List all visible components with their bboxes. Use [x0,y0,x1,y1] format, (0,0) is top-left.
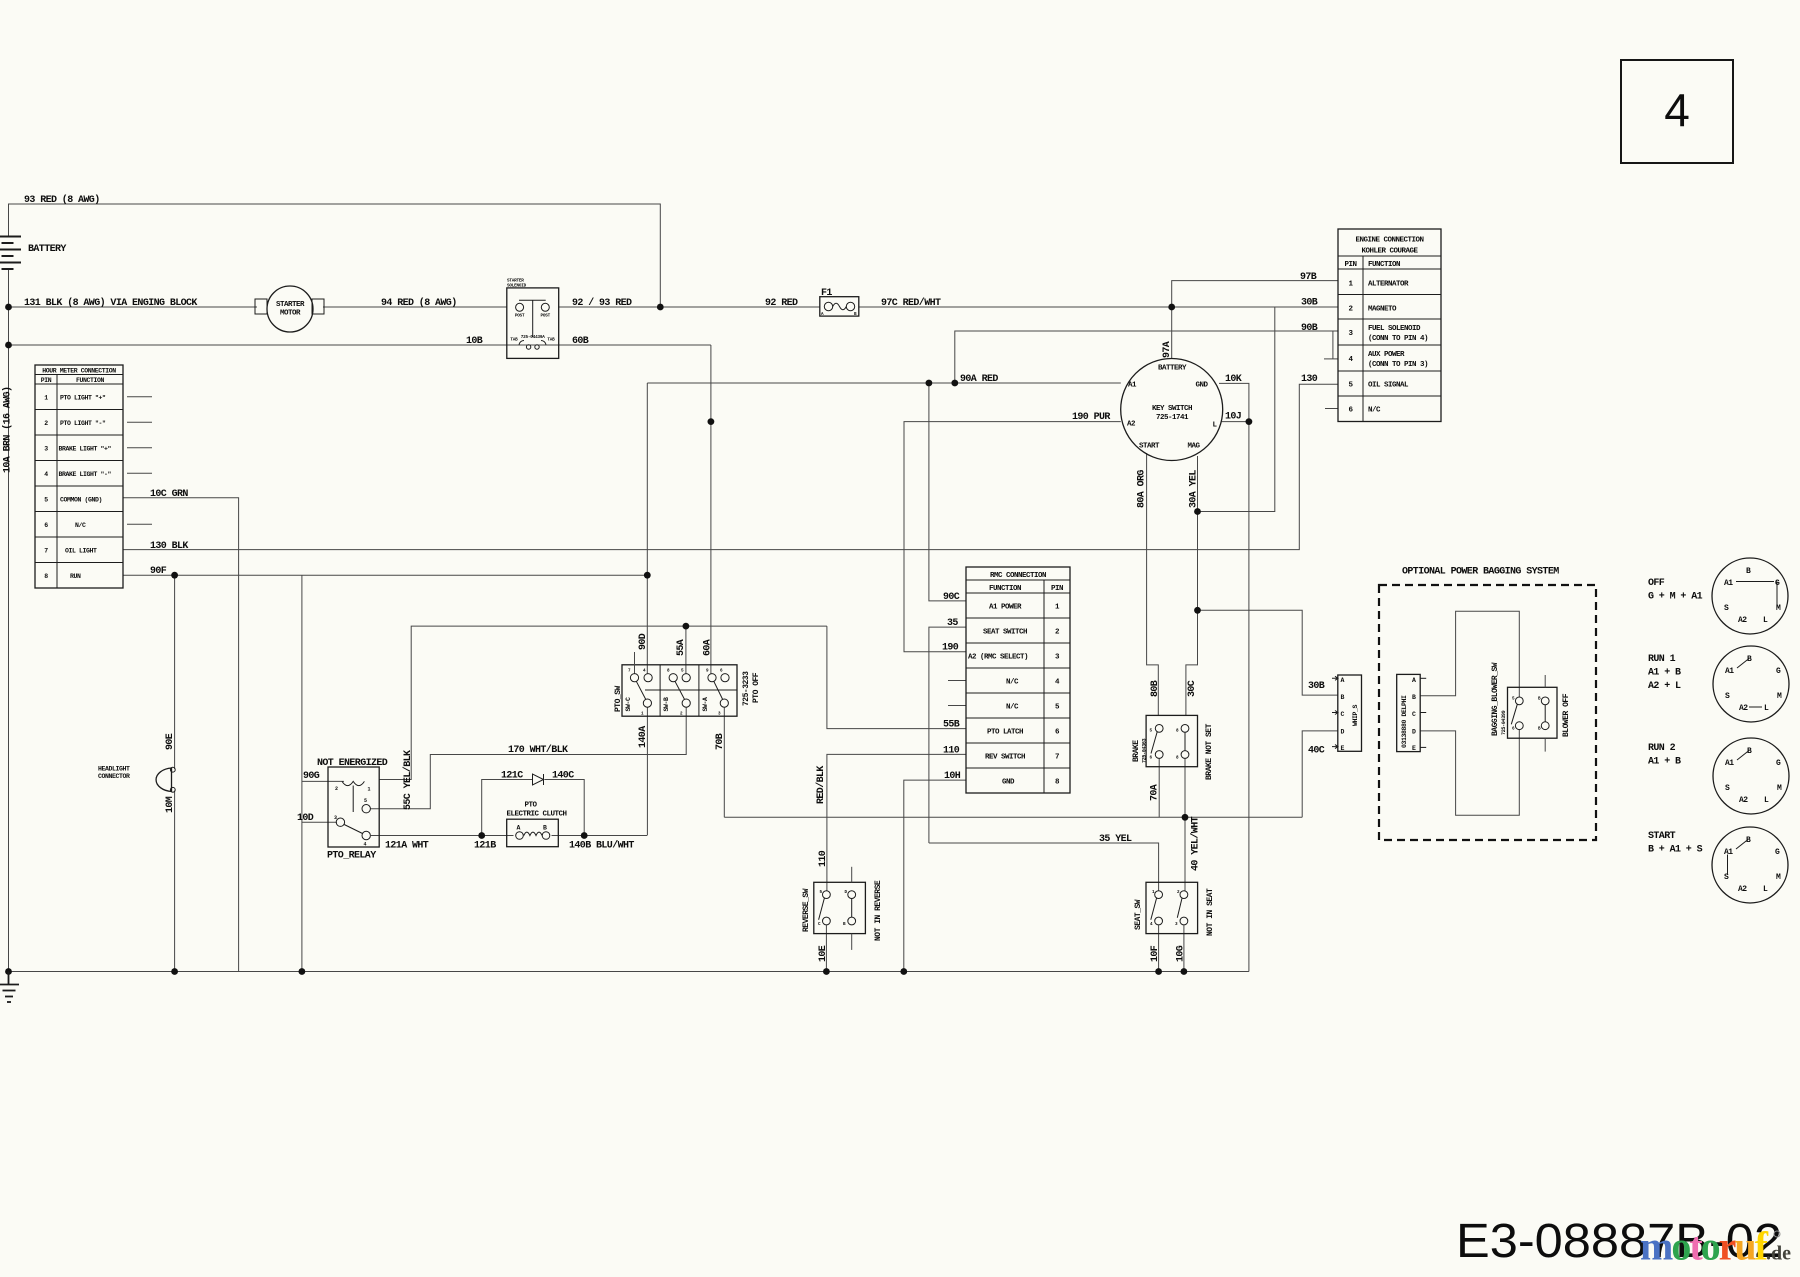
svg-text:30B: 30B [1301,298,1318,309]
svg-text:N/C: N/C [1368,407,1381,415]
svg-text:10C GRN: 10C GRN [150,489,188,500]
junction node 30A tap upper [1194,508,1201,515]
watermark motoruf logo [1640,1224,1791,1269]
svg-text:170 WHT/BLK: 170 WHT/BLK [508,744,568,756]
svg-text:L: L [1764,796,1769,805]
svg-text:OFF: OFF [1648,578,1665,589]
svg-text:4: 4 [1664,84,1690,136]
wire 90D down to PTO switch pin 4 [646,383,648,674]
svg-text:1: 1 [368,787,371,793]
wire 30A YEL key switch mag down [1186,456,1198,715]
svg-text:S: S [1724,873,1729,882]
svg-text:131 BLK (8 AWG) VIA ENGING BLO: 131 BLK (8 AWG) VIA ENGING BLOCK [24,297,197,309]
svg-text:POST: POST [541,314,551,319]
svg-text:5: 5 [364,798,367,804]
svg-text:4: 4 [364,842,367,848]
svg-text:S: S [1724,604,1729,613]
junction node 55A tap [683,623,690,630]
wire 55B into RMC pin 6 [827,626,966,729]
svg-text:RMC CONNECTION: RMC CONNECTION [990,572,1046,580]
svg-text:35: 35 [947,618,958,629]
svg-text:55B: 55B [943,720,960,731]
svg-text:A2: A2 [1739,704,1748,713]
table HOUR METER CONNECTION [35,365,123,588]
junction node battery 10B [5,342,12,349]
svg-text:140C: 140C [552,771,574,782]
svg-text:A1 POWER: A1 POWER [989,604,1022,612]
svg-text:725-04439A: 725-04439A [521,335,545,340]
wire 90G relay feed vertical [302,575,344,971]
svg-text:(CONN TO PIN 4): (CONN TO PIN 4) [1368,335,1428,343]
svg-text:6: 6 [44,522,48,529]
wire 10K key switch GND [1219,383,1249,971]
svg-text:ELECTRIC CLUTCH: ELECTRIC CLUTCH [506,811,566,819]
stub hour meter pin 2 [127,421,152,423]
svg-text:SEAT SWITCH: SEAT SWITCH [983,629,1027,637]
svg-text:N/C: N/C [1006,679,1019,687]
svg-text:A1 + B: A1 + B [1648,757,1681,768]
switch BRAKE 725-04363 [1132,715,1214,780]
svg-text:30B: 30B [1308,681,1325,692]
svg-text:10E: 10E [818,945,829,962]
junction node bus at 10H [900,968,907,975]
junction node 93 RED drop [657,304,664,311]
svg-text:E: E [1412,745,1416,752]
svg-text:FUNCTION: FUNCTION [1368,261,1400,269]
wire 40 YEL/WHT brake to seat switch pin 2 [1184,758,1186,891]
svg-text:MAG: MAG [1188,443,1201,451]
svg-text:93 RED (8 AWG): 93 RED (8 AWG) [24,194,100,206]
svg-text:SW-B: SW-B [663,697,670,712]
key position diagram OFF [1648,558,1788,634]
svg-text:S: S [1725,784,1730,793]
wire 140B BLU/WHT clutch B to 140A riser [552,835,648,837]
svg-text:7: 7 [44,548,48,555]
stub RMC pin 4 N/C [948,680,966,682]
wire 90E headlight feed [174,575,176,769]
svg-text:ENGINE CONNECTION: ENGINE CONNECTION [1355,237,1423,245]
svg-text:C: C [1412,711,1416,718]
svg-text:A1: A1 [1724,579,1733,588]
svg-text:A1: A1 [1725,667,1734,676]
svg-text:8: 8 [44,573,48,580]
svg-text:725-1741: 725-1741 [1156,414,1189,422]
svg-text:80A ORG: 80A ORG [1137,470,1148,508]
svg-text:N/C: N/C [75,522,86,529]
svg-text:110: 110 [943,746,960,757]
svg-text:190: 190 [942,643,959,654]
svg-text:60B: 60B [572,336,589,347]
fuse F1 [820,297,859,317]
svg-text:WHIP_S: WHIP_S [1352,704,1359,726]
svg-text:KOHLER COURAGE: KOHLER COURAGE [1361,248,1418,256]
svg-text:BRAKE NOT SET: BRAKE NOT SET [1205,723,1214,780]
wire 10F seat switch to ground bus [1158,925,1160,971]
svg-text:7: 7 [1055,754,1059,762]
svg-text:POST: POST [515,314,525,319]
svg-text:START: START [1648,831,1676,842]
svg-text:PIN: PIN [1344,261,1356,269]
svg-text:B: B [543,825,547,832]
svg-text:90B: 90B [1301,323,1318,334]
svg-text:BAGGING_BLOWER_SW: BAGGING_BLOWER_SW [1491,662,1500,736]
svg-text:STARTER: STARTER [276,301,305,309]
switch BAGGING_BLOWER_SW [1491,662,1571,751]
wire 35 YEL to seat switch pin 1 [929,843,1159,891]
svg-text:B: B [1412,694,1416,701]
junction node 30B tap lower [1194,607,1201,614]
svg-text:NOT ENERGIZED: NOT ENERGIZED [317,758,388,769]
table ENGINE CONNECTION KOHLER COURAGE [1338,229,1441,422]
wire 121A WHT relay pin 4 to clutch [371,835,514,837]
wire 10M headlight return [174,791,176,972]
svg-text:OIL SIGNAL: OIL SIGNAL [1368,382,1409,390]
svg-text:KEY SWITCH: KEY SWITCH [1152,405,1192,413]
svg-text:N/C: N/C [1006,704,1019,712]
svg-text:ALTERNATOR: ALTERNATOR [1368,281,1409,289]
svg-text:MAGNETO: MAGNETO [1368,306,1397,314]
svg-text:90E: 90E [165,733,176,750]
junction node 140B [581,832,588,839]
svg-text:HOUR METER CONNECTION: HOUR METER CONNECTION [42,368,116,375]
svg-text:725-3233: 725-3233 [742,671,751,706]
svg-text:PTO_RELAY: PTO_RELAY [327,851,376,862]
svg-text:F1: F1 [821,288,832,299]
svg-text:121C: 121C [501,771,523,782]
svg-text:PTO LIGHT "-": PTO LIGHT "-" [60,420,106,427]
switch PTO_SW 725-3233 [614,652,761,717]
svg-text:OIL LIGHT: OIL LIGHT [65,548,97,555]
svg-text:90D: 90D [638,633,649,650]
svg-text:A2 + L: A2 + L [1648,681,1681,692]
junction node bus at ground [5,968,12,975]
svg-text:90G: 90G [303,771,320,782]
ground GND1 [0,972,19,1003]
svg-text:BRAKE LIGHT "+": BRAKE LIGHT "+" [59,446,112,453]
svg-text:G: G [1776,667,1781,676]
svg-text:C: C [1341,711,1345,718]
svg-text:L: L [1764,704,1769,713]
stub hour meter pin 3 [127,447,152,449]
wire battery negative down left rail [8,269,10,972]
svg-text:BRAKE: BRAKE [1132,740,1141,762]
wire 10B 60B lower solenoid run [9,344,711,346]
junction node bus at 10G [1181,968,1188,975]
junction node 97 split [1168,304,1175,311]
svg-text:(CONN TO PIN 3): (CONN TO PIN 3) [1368,361,1428,369]
clutch PTO ELECTRIC CLUTCH [506,802,566,847]
wire 140A 140B clutch to PTO switch pin 1 [646,707,648,835]
svg-text:A1: A1 [1725,759,1734,768]
svg-text:SEAT_SW: SEAT_SW [1134,899,1143,930]
svg-text:03138880 DELPHI: 03138880 DELPHI [1401,695,1408,748]
svg-text:10M: 10M [165,796,176,813]
svg-text:90A RED: 90A RED [960,374,998,385]
wire 170 WHT/BLK relay pin 5 to PTO switch pin 2 [370,707,686,809]
wire 30B branch to whip connector pin B [1198,610,1338,695]
wire 140C diode branch right [545,780,585,836]
svg-text:START: START [1139,443,1160,451]
svg-text:94 RED (8 AWG): 94 RED (8 AWG) [381,297,457,309]
svg-text:G: G [1776,759,1781,768]
svg-text:TAB: TAB [510,338,518,343]
svg-text:GND: GND [1196,382,1209,390]
svg-text:30A YEL: 30A YEL [1189,470,1200,508]
stub RMC pin 5 N/C [948,705,966,707]
svg-text:AUX POWER: AUX POWER [1368,351,1405,359]
svg-text:190 PUR: 190 PUR [1072,412,1110,423]
wire 70A riser to brake switch [1158,758,1160,817]
wire bagging blower switch upper loop [1420,611,1519,697]
junction node headlight tap [171,572,178,579]
svg-text:10F: 10F [1150,945,1161,962]
svg-text:97A: 97A [1162,341,1173,358]
wire 97A down to key switch battery terminal [1171,307,1173,359]
svg-text:BLOWER OFF: BLOWER OFF [1562,693,1571,737]
svg-text:PTO: PTO [524,802,537,810]
wire 60A down to PTO switch pin 9 [710,345,712,674]
diode D1 [533,774,544,785]
stub hour meter pin 1 [127,396,152,398]
svg-text:10H: 10H [944,771,961,782]
wire 35 RMC pin 2 riser [929,627,966,843]
svg-text:A2: A2 [1738,885,1747,894]
svg-text:35 YEL: 35 YEL [1099,834,1132,845]
wire 90F hour meter run pin 8 [123,574,647,576]
wire 10J key switch L [1222,421,1249,423]
svg-text:M: M [1776,604,1781,613]
svg-text:725-04399: 725-04399 [1501,710,1507,735]
svg-text:FUNCTION: FUNCTION [989,585,1021,593]
svg-text:FUNCTION: FUNCTION [76,377,105,384]
junction node 121B [478,832,485,839]
svg-text:PTO_SW: PTO_SW [614,685,623,712]
svg-text:RUN: RUN [70,573,81,580]
svg-text:121A WHT: 121A WHT [385,841,429,852]
starter motor M1 [255,286,324,332]
svg-text:1: 1 [44,395,48,402]
svg-text:A: A [517,825,521,832]
svg-text:HEADLIGHT: HEADLIGHT [98,766,130,773]
svg-text:PTO OFF: PTO OFF [752,672,761,703]
switch SEAT_SW [1134,882,1215,936]
svg-text:FUEL SOLENOID: FUEL SOLENOID [1368,325,1421,333]
headlight connector P2 [98,766,175,793]
svg-text:M: M [1777,784,1782,793]
svg-text:A2 (RMC SELECT): A2 (RMC SELECT) [968,654,1028,662]
svg-text:GND: GND [1002,779,1015,787]
wire 97C RED/WHT and 30B to engine pin 2 [859,306,1338,308]
svg-text:130: 130 [1301,374,1318,385]
wire 90A RED to key switch A1 [647,382,1121,384]
svg-text:TAB: TAB [547,338,555,343]
svg-text:RUN 1: RUN 1 [1648,654,1676,665]
wire 55A down to PTO switch pin 5 [685,626,687,674]
svg-text:130 BLK: 130 BLK [150,541,188,552]
wire 110 RMC pin 7 to reverse switch [827,754,966,891]
svg-text:10B: 10B [466,336,483,347]
svg-text:110: 110 [818,850,829,867]
stub engine pin 6 N/C [1325,408,1338,410]
svg-text:BATTERY: BATTERY [28,244,66,255]
wire 70A 40C lower horizontal run [724,816,1302,818]
wire 10E reverse switch to ground bus [825,925,827,971]
wire 130 long oil signal run [123,384,1338,549]
svg-text:G + M + A1: G + M + A1 [1648,592,1703,603]
wire 55C YEL/BLK relay coil riser [379,626,827,779]
svg-text:5: 5 [44,497,48,504]
wire 131 BLK battery to starter motor [9,306,258,308]
stub hour meter pin 6 [127,523,152,525]
svg-text:OPTIONAL POWER BAGGING SYSTEM: OPTIONAL POWER BAGGING SYSTEM [1402,567,1559,578]
wire 90B engine pin 3 run [955,331,1338,383]
svg-text:97B: 97B [1300,272,1317,283]
wire 10C GRN from hour meter pin 5 [123,498,239,972]
wire 121C diode branch left [482,780,533,836]
svg-text:4: 4 [44,471,48,478]
svg-text:A1: A1 [1128,382,1137,390]
svg-text:PIN: PIN [1051,585,1063,593]
svg-text:140B BLU/WHT: 140B BLU/WHT [569,840,634,852]
junction node bus at headlight [171,968,178,975]
key switch S1 [1121,359,1223,461]
svg-text:CONNECTOR: CONNECTOR [98,773,130,780]
svg-text:A: A [1341,677,1345,684]
svg-text:3: 3 [334,815,337,821]
junction node bus at reverse switch [823,968,830,975]
wire 70B PTO switch pin 3 down [723,707,725,817]
svg-text:L: L [1763,885,1768,894]
battery B1 [0,237,21,270]
table RMC CONNECTION [966,567,1070,793]
svg-text:3: 3 [44,446,48,453]
wire 93 RED top run [9,204,661,307]
svg-text:PTO LIGHT "+": PTO LIGHT "+" [60,395,106,402]
wire 40C riser to whip connector pin D [1302,731,1338,817]
wire 10H RMC pin 8 ground [904,780,966,971]
svg-text:MOTOR: MOTOR [280,310,301,318]
junction node 90A at 90C riser [926,380,933,387]
svg-text:A1 + B: A1 + B [1648,668,1681,679]
junction node 10J tap [1246,418,1253,425]
svg-text:2: 2 [44,420,48,427]
wire 30A to engine pin 2 riser [1198,307,1275,512]
junction node 60 at 190 level [708,418,715,425]
svg-text:40C: 40C [1308,746,1325,757]
svg-text:RED/BLK: RED/BLK [815,766,827,804]
svg-text:S: S [1725,692,1730,701]
wire 190 PUR key switch A2 run [904,422,1121,652]
svg-text:90F: 90F [150,566,167,577]
svg-text:92 RED: 92 RED [765,298,798,309]
svg-text:NOT IN SEAT: NOT IN SEAT [1206,888,1215,936]
stub hour meter pin 4 [127,472,152,474]
wire starter motor to solenoid 94 RED [323,306,507,308]
svg-text:A: A [1412,677,1416,684]
svg-text:PIN: PIN [41,377,52,384]
svg-text:D: D [1412,729,1416,736]
svg-text:10K: 10K [1225,374,1242,385]
wire ground bus bottom [9,971,1249,973]
page number box 4 [1621,60,1733,163]
svg-text:NOT IN REVERSE: NOT IN REVERSE [874,880,883,941]
svg-text:55A: 55A [676,639,687,656]
svg-text:B: B [1746,567,1751,576]
svg-text:PTO LATCH: PTO LATCH [987,729,1023,737]
junction node 90F at 90D [644,572,651,579]
key position diagram RUN 1 [1648,646,1789,722]
wire 97B riser to engine pin 1 [1172,281,1338,307]
dashed box OPTIONAL POWER BAGGING SYSTEM [1379,585,1596,840]
svg-text:121B: 121B [474,841,496,852]
connector 03138880 DELPHI [1397,674,1427,752]
svg-text:SOLENOID: SOLENOID [507,284,527,289]
svg-text:COMMON (GND): COMMON (GND) [60,497,102,504]
svg-text:A1: A1 [1724,848,1733,857]
svg-text:10D: 10D [297,813,314,824]
svg-text:92 / 93 RED: 92 / 93 RED [572,297,632,309]
svg-text:REVERSE_SW: REVERSE_SW [802,888,811,932]
svg-text:10A BRN (16 AWG): 10A BRN (16 AWG) [2,387,14,473]
svg-text:2: 2 [335,786,338,792]
svg-text:140A: 140A [638,726,649,748]
svg-text:A2: A2 [1738,616,1747,625]
svg-text:M: M [1776,873,1781,882]
svg-text:90C: 90C [943,592,960,603]
svg-text:80B: 80B [1150,680,1161,697]
key position diagram RUN 2 [1648,738,1789,814]
svg-text:10G: 10G [1176,945,1187,962]
svg-text:A2: A2 [1739,796,1748,805]
bracket conn pin3 to pin4 engine table [1324,331,1338,359]
svg-text:RUN 2: RUN 2 [1648,743,1676,754]
junction node bus at relay ground [299,968,306,975]
svg-text:40 YEL/WHT: 40 YEL/WHT [1190,816,1202,871]
svg-text:BATTERY: BATTERY [1158,365,1187,373]
svg-text:70B: 70B [715,733,726,750]
wire 80A ORG key switch start down [1147,453,1159,715]
junction node 90A at 90B riser [951,380,958,387]
svg-text:60A: 60A [703,639,714,656]
svg-text:70A: 70A [1150,784,1161,801]
svg-text:D: D [1341,729,1345,736]
wire 10D relay ground [302,821,337,823]
svg-text:B: B [1341,694,1345,701]
svg-text:REV SWITCH: REV SWITCH [985,754,1025,762]
svg-text:M: M [1777,692,1782,701]
svg-text:55C YEL/BLK: 55C YEL/BLK [402,750,414,810]
starter solenoid K1 [507,279,559,359]
key position diagram START [1648,827,1788,903]
svg-text:G: G [1775,848,1780,857]
svg-text:30C: 30C [1187,680,1198,697]
svg-text:L: L [1763,616,1768,625]
junction node bus at 10F [1155,968,1162,975]
svg-text:A2: A2 [1127,421,1136,429]
svg-text:B + A1 + S: B + A1 + S [1648,845,1703,856]
svg-text:E: E [1341,745,1345,752]
wire 90C RMC pin 1 riser [929,383,966,601]
wire bagging blower switch lower loop [1420,729,1519,815]
switch REVERSE_SW [802,867,883,950]
svg-text:SW-C: SW-C [625,697,632,712]
relay PTO_RELAY [328,767,379,848]
wire 92 / 93 RED solenoid to F1 [559,306,820,308]
svg-text:SW-A: SW-A [702,697,709,712]
junction node 40 YEL/WHT tap [1182,814,1189,821]
connector WHIP_S [1332,675,1362,752]
svg-text:10J: 10J [1225,412,1241,423]
